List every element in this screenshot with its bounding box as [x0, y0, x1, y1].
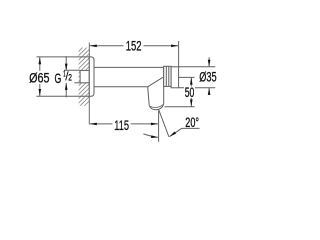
spout shoulder edge — [148, 77, 163, 87]
spout front edge — [148, 87, 150, 106]
svg-text:115: 115 — [114, 117, 129, 133]
angle: left arc arrow — [151, 135, 158, 138]
svg-text:G: G — [55, 70, 62, 86]
dim 50: bottom arrow — [190, 100, 193, 107]
angle: left arc tail — [143, 134, 157, 137]
dim O65: bottom extension line — [36, 95, 89, 97]
dim 115: right arrow — [151, 123, 158, 126]
dim 50: top arrow — [190, 78, 193, 85]
dim 152: left arrow — [90, 45, 97, 48]
svg-text:Ø65: Ø65 — [29, 69, 49, 85]
head knob — [171, 67, 179, 88]
dim 115: line — [90, 123, 113, 125]
angle: leader arrow — [169, 132, 176, 137]
G 1/2 inlet nipple — [80, 70, 89, 82]
svg-text:152: 152 — [126, 37, 142, 53]
dim G1/2: lower arrow — [65, 83, 67, 97]
dim G1/2: upper arrow — [65, 56, 67, 70]
svg-text:1: 1 — [63, 70, 66, 79]
spout outlet lip — [149, 104, 164, 110]
dim O65: bottom arrow — [39, 89, 42, 96]
svg-text:50: 50 — [185, 84, 195, 100]
svg-text:Ø35: Ø35 — [199, 69, 216, 85]
body end / spout right edge — [163, 67, 165, 104]
dim 115: left arrow — [90, 123, 97, 126]
grooved ring — [164, 66, 171, 86]
dim O35: top arrow — [208, 57, 210, 66]
dim 50: centerline extension — [179, 76, 195, 78]
dim 152: right arrow — [171, 45, 178, 48]
tap body top line — [94, 66, 164, 68]
dim O35: top extension line — [179, 66, 216, 68]
svg-text:20°: 20° — [185, 114, 199, 130]
dim 152: right extension line — [178, 41, 180, 67]
dim O35: bottom extension line — [179, 87, 216, 89]
dim 50: text — [184, 87, 195, 98]
angle: leader line — [170, 128, 200, 136]
dim O35: bottom arrow — [208, 88, 210, 95]
dim O65: line — [39, 57, 41, 71]
dim O65: top extension line — [36, 56, 89, 58]
wall face line — [88, 43, 90, 125]
dim G1/2: nipple top extension — [64, 69, 80, 71]
tap body bottom line — [94, 86, 148, 88]
dim 50: line — [190, 78, 192, 87]
spout outlet inner rim — [150, 105, 163, 108]
dim G1/2: nipple bottom extension — [74, 82, 80, 84]
angle: 20 deg stream line — [159, 110, 169, 137]
dim 50: outlet level extension — [165, 106, 195, 108]
wall hatching — [74, 38, 92, 116]
angle: vertical reference line — [158, 110, 160, 142]
dim O65: top arrow — [39, 57, 42, 64]
svg-text:2: 2 — [68, 72, 72, 82]
wall flange (escutcheon) — [89, 57, 94, 96]
dim 152: line — [90, 45, 124, 47]
